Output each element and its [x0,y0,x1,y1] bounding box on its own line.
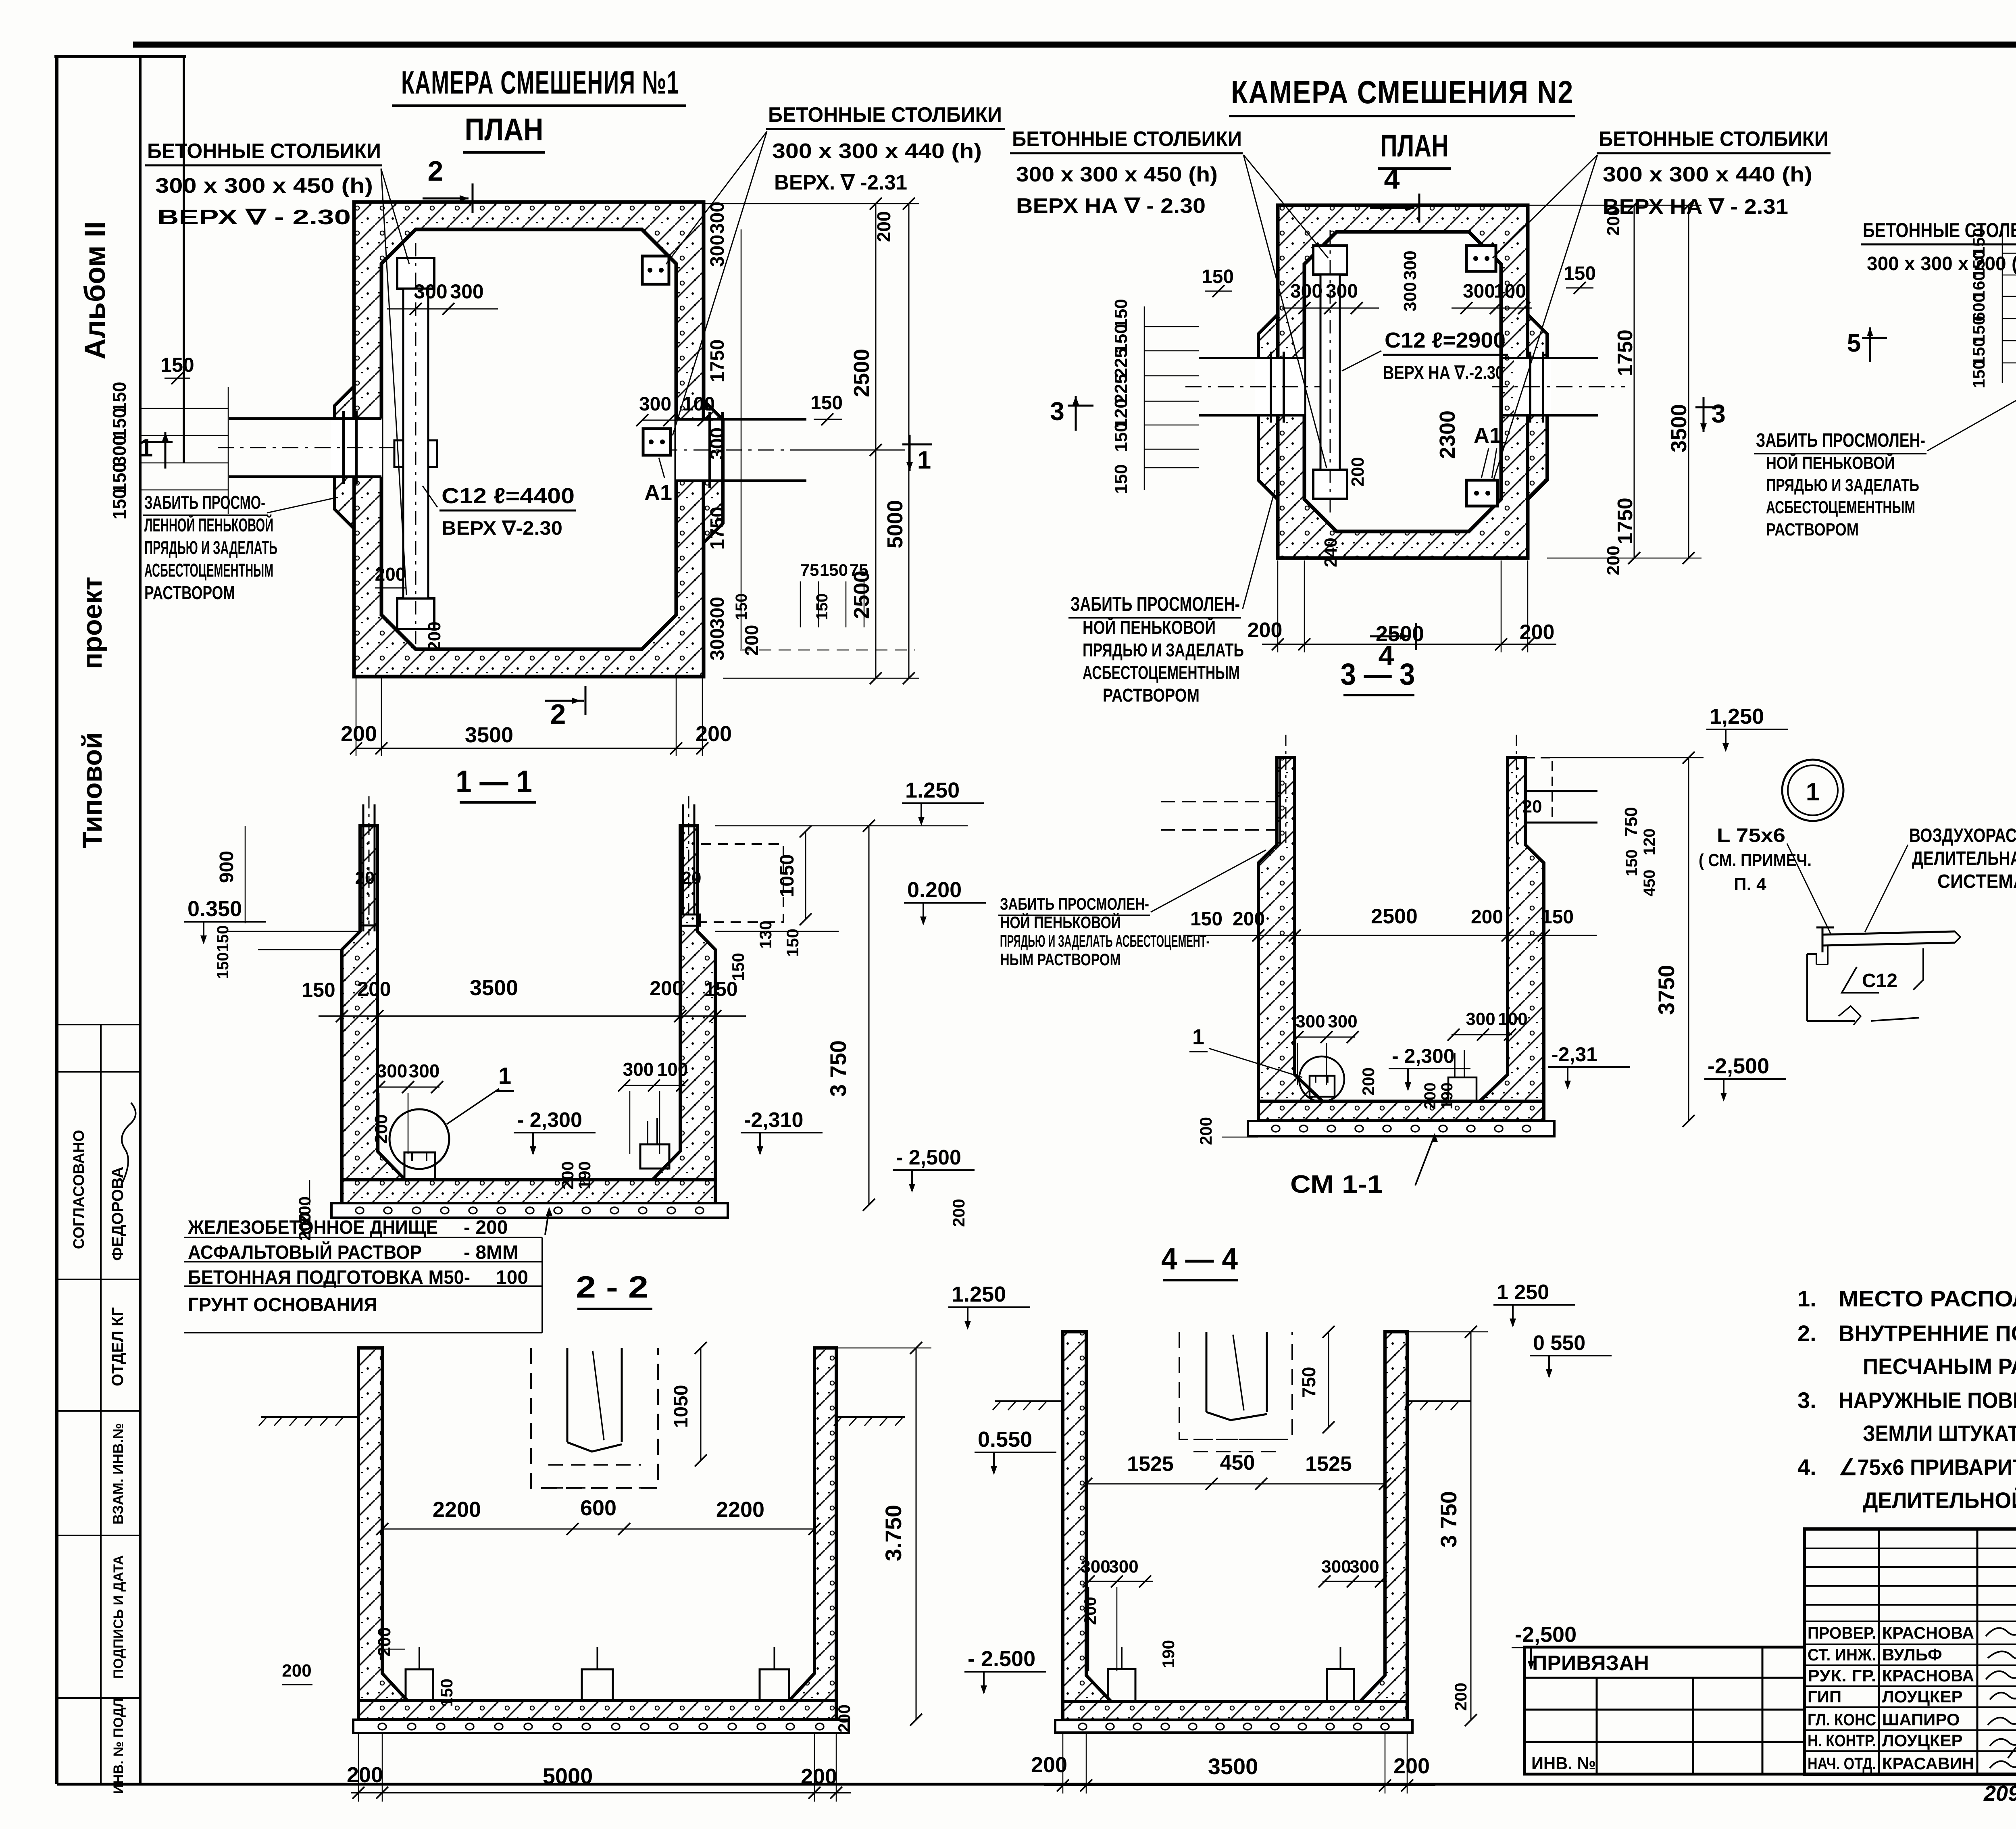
svg-text:ИНВ. № ПОДЛ: ИНВ. № ПОДЛ [111,1698,126,1794]
svg-text:Альбом II: Альбом II [79,221,111,360]
svg-text:200: 200 [1604,206,1623,235]
svg-text:150: 150 [1111,464,1131,494]
svg-text:200: 200 [1471,906,1503,928]
svg-text:200: 200 [347,1763,383,1787]
svg-text:-2,500: -2,500 [1515,1623,1577,1647]
svg-text:РАСТВОРОМ: РАСТВОРОМ [1766,520,1859,540]
svg-text:300: 300 [109,435,130,467]
svg-text:4: 4 [1384,163,1400,195]
svg-text:БЕТОННЫЕ СТОЛБИКИ: БЕТОННЫЕ СТОЛБИКИ [1863,219,2016,242]
svg-text:ОТДЕЛ КГ: ОТДЕЛ КГ [109,1307,127,1386]
svg-text:ГЛ. КОНС: ГЛ. КОНС [1808,1710,1876,1729]
svg-text:150: 150 [783,929,802,957]
svg-text:150: 150 [1202,266,1234,287]
svg-text:ГРУНТ ОСНОВАНИЯ: ГРУНТ ОСНОВАНИЯ [188,1294,377,1316]
svg-text:1 250: 1 250 [1497,1281,1549,1304]
svg-text:300: 300 [1400,250,1420,280]
svg-text:150: 150 [109,489,130,520]
svg-text:ВУЛЬФ: ВУЛЬФ [1882,1645,1942,1664]
svg-text:ДЕЛИТЕЛЬНАЯ: ДЕЛИТЕЛЬНАЯ [1912,848,2016,869]
svg-text:РАСТВОРОМ: РАСТВОРОМ [144,582,235,603]
svg-text:300: 300 [1400,282,1420,311]
svg-text:200: 200 [741,625,762,656]
svg-text:НАЧ. ОТД.: НАЧ. ОТД. [1808,1754,1876,1773]
svg-text:3500: 3500 [1208,1754,1258,1779]
svg-text:ВЕРХ НА ∇ - 2.31: ВЕРХ НА ∇ - 2.31 [1603,195,1788,219]
svg-text:200: 200 [1604,546,1623,575]
svg-text:НОЙ ПЕНЬКОВОЙ: НОЙ ПЕНЬКОВОЙ [1766,452,1895,473]
svg-text:200: 200 [357,978,391,1000]
svg-text:ПРЯДЬЮ И ЗАДЕЛАТЬ: ПРЯДЬЮ И ЗАДЕЛАТЬ [1083,639,1244,660]
svg-text:ВЕРХ НА ∇.-2.30: ВЕРХ НА ∇.-2.30 [1383,362,1504,383]
svg-text:1525: 1525 [1305,1452,1352,1476]
svg-text:НОЙ ПЕНЬКОВОЙ: НОЙ ПЕНЬКОВОЙ [1000,912,1121,932]
svg-text:ВЕРХ. ∇ -2.31: ВЕРХ. ∇ -2.31 [774,171,907,194]
svg-text:4.: 4. [1797,1454,1816,1480]
svg-text:5000: 5000 [543,1763,593,1789]
svg-text:ПРОВЕР.: ПРОВЕР. [1808,1623,1876,1642]
svg-text:150: 150 [109,408,130,439]
svg-text:150: 150 [1541,906,1574,928]
svg-text:150: 150 [160,354,194,376]
svg-text:150: 150 [1564,263,1596,284]
svg-text:ПЛАН: ПЛАН [465,112,544,147]
svg-text:5000: 5000 [883,500,907,548]
svg-text:СТ. ИНЖ.: СТ. ИНЖ. [1808,1645,1876,1664]
svg-text:1050: 1050 [777,854,798,898]
svg-text:3500: 3500 [470,976,518,1000]
svg-text:200: 200 [375,1627,394,1656]
svg-text:200: 200 [873,211,894,242]
svg-text:П. 4: П. 4 [1734,875,1766,894]
svg-text:150: 150 [813,594,831,621]
svg-text:2300: 2300 [1435,410,1460,459]
svg-text:-2,31: -2,31 [1552,1043,1597,1066]
svg-text:ЛОУЦКЕР: ЛОУЦКЕР [1882,1731,1963,1750]
svg-text:КАМЕРА СМЕШЕНИЯ №1: КАМЕРА СМЕШЕНИЯ №1 [401,65,679,100]
svg-text:600: 600 [580,1496,616,1520]
svg-text:200: 200 [1081,1597,1100,1625]
svg-text:ПРЯДЬЮ И ЗАДЕЛАТЬ: ПРЯДЬЮ И ЗАДЕЛАТЬ [144,537,277,558]
svg-text:300: 300 [409,1060,440,1081]
svg-text:РАСТВОРОМ: РАСТВОРОМ [1103,685,1200,706]
svg-text:20934-02: 20934-02 [1983,1781,2016,1806]
svg-text:Типовой: Типовой [77,732,108,848]
svg-text:4 — 4: 4 — 4 [1161,1242,1238,1276]
svg-text:ВНУТРЕННИЕ ПОВЕРХНОСТИ ОШТУ: ВНУТРЕННИЕ ПОВЕРХНОСТИ ОШТУКАТУРИТЬ ЦЕМЕ… [1839,1321,2016,1346]
svg-text:20: 20 [682,868,702,888]
svg-text:1: 1 [1806,778,1820,806]
svg-text:200: 200 [1451,1683,1470,1711]
svg-text:-2,500: -2,500 [1708,1054,1769,1078]
svg-text:1.: 1. [1797,1286,1816,1311]
svg-text:150: 150 [729,953,748,981]
svg-text:ВЕРХ НА ∇ - 2.30: ВЕРХ НА ∇ - 2.30 [1016,194,1206,218]
svg-text:ПРИВЯЗАН: ПРИВЯЗАН [1532,1652,1649,1675]
svg-text:∠75x6 ПРИВАРИТЬ К С12 ПО: ∠75x6 ПРИВАРИТЬ К С12 ПОСЛЕ МОНТАЖА ВОЗД… [1839,1454,2016,1480]
svg-text:1: 1 [917,446,931,474]
svg-text:ЛОУЦКЕР: ЛОУЦКЕР [1882,1687,1963,1706]
svg-text:300 x 300 x 450 (h): 300 x 300 x 450 (h) [155,174,373,198]
svg-text:300 x 300 x 200 (h): 300 x 300 x 200 (h) [1867,253,2016,275]
svg-text:200: 200 [835,1704,854,1733]
svg-text:300: 300 [1109,1557,1138,1577]
svg-text:3 750: 3 750 [1436,1491,1461,1548]
svg-text:АСБЕСТОЦЕМЕНТНЫМ: АСБЕСТОЦЕМЕНТНЫМ [144,560,273,581]
svg-text:300: 300 [623,1059,654,1080]
svg-text:3: 3 [1711,399,1726,428]
svg-text:900: 900 [216,851,237,883]
svg-text:- 8ММ: - 8ММ [464,1242,519,1263]
svg-text:3 — 3: 3 — 3 [1341,657,1415,692]
svg-text:1750: 1750 [1614,498,1637,544]
svg-text:150: 150 [1111,422,1131,452]
svg-text:300: 300 [450,280,483,303]
svg-text:450: 450 [1220,1451,1255,1475]
svg-text:С12 ℓ=4400: С12 ℓ=4400 [442,484,575,508]
svg-text:200: 200 [282,1661,311,1681]
svg-text:300 x 300 x 440 (h): 300 x 300 x 440 (h) [1603,163,1812,186]
svg-text:200: 200 [375,564,406,585]
svg-text:СИСТЕМА: СИСТЕМА [1937,871,2016,892]
svg-text:3500: 3500 [465,723,513,747]
svg-text:750: 750 [1621,807,1641,836]
svg-text:ЗАБИТЬ ПРОСМОЛЕН-: ЗАБИТЬ ПРОСМОЛЕН- [1756,430,1925,451]
svg-text:Н. КОНТР.: Н. КОНТР. [1808,1731,1876,1750]
svg-text:100: 100 [683,394,715,415]
svg-text:300: 300 [639,394,671,415]
svg-text:1: 1 [498,1063,511,1089]
svg-text:ПРЯДЬЮ И ЗАДЕЛАТЬ: ПРЯДЬЮ И ЗАДЕЛАТЬ [1766,475,1919,495]
svg-text:150: 150 [302,979,335,1001]
svg-text:2500: 2500 [850,571,874,619]
svg-text:НЫМ РАСТВОРОМ: НЫМ РАСТВОРОМ [1000,950,1121,969]
svg-text:100: 100 [1494,281,1526,302]
svg-text:300: 300 [707,427,728,460]
svg-text:300: 300 [1290,281,1322,302]
svg-text:1750: 1750 [1614,329,1637,376]
svg-text:3.: 3. [1797,1387,1816,1413]
svg-text:1,250: 1,250 [1710,704,1764,729]
svg-text:200: 200 [1031,1753,1067,1777]
svg-text:2200: 2200 [716,1498,764,1522]
svg-text:300: 300 [1466,1009,1495,1029]
svg-text:0.550: 0.550 [978,1427,1032,1452]
svg-text:БЕТОННЫЕ СТОЛБИКИ: БЕТОННЫЕ СТОЛБИКИ [147,140,381,163]
svg-text:2.: 2. [1797,1321,1816,1346]
svg-text:ЖЕЛЕЗОБЕТОННОЕ ДНИЩЕ: ЖЕЛЕЗОБЕТОННОЕ ДНИЩЕ [187,1217,438,1238]
svg-text:СМ 1-1: СМ 1-1 [1290,1171,1383,1198]
svg-text:200: 200 [650,977,683,1000]
svg-text:БЕТОННАЯ ПОДГОТОВКА М50-: БЕТОННАЯ ПОДГОТОВКА М50- [188,1267,470,1288]
svg-text:450: 450 [1641,870,1658,897]
svg-text:ПЕСЧАНЫМ РАСТВОРОМ СОСТАВ: ПЕСЧАНЫМ РАСТВОРОМ СОСТАВА 1:2 НА ТОЛЩИН… [1863,1354,2016,1379]
svg-text:300: 300 [1350,1557,1379,1577]
svg-text:200: 200 [1520,621,1555,644]
svg-text:300: 300 [414,280,447,303]
svg-text:1: 1 [1192,1025,1204,1049]
svg-text:3500: 3500 [1667,404,1691,452]
svg-text:А1: А1 [644,481,672,505]
svg-text:200: 200 [696,722,732,746]
svg-text:0.200: 0.200 [907,878,962,902]
svg-text:ПЛАН: ПЛАН [1380,128,1449,163]
svg-text:1050: 1050 [671,1385,692,1428]
svg-text:200: 200 [1248,619,1283,642]
svg-text:150: 150 [810,392,843,414]
svg-text:КРАСНОВА: КРАСНОВА [1882,1623,1974,1642]
svg-text:300: 300 [1326,281,1358,302]
svg-text:1.250: 1.250 [905,778,960,802]
svg-text:1: 1 [139,434,153,462]
svg-text:300: 300 [1463,281,1495,302]
svg-text:0 550: 0 550 [1533,1331,1585,1355]
svg-text:75: 75 [800,560,819,579]
svg-text:ЗЕМЛИ ШТУКАТУРЯТСЯ.: ЗЕМЛИ ШТУКАТУРЯТСЯ. [1863,1421,2016,1446]
svg-text:БЕТОННЫЕ СТОЛБИКИ: БЕТОННЫЕ СТОЛБИКИ [1599,127,1829,151]
svg-text:3: 3 [1050,397,1064,426]
svg-text:1 — 1: 1 — 1 [456,764,532,799]
svg-text:200: 200 [425,621,444,651]
svg-text:150: 150 [1623,850,1641,877]
svg-text:20: 20 [355,868,375,888]
svg-text:300 x 300 x 440 (h): 300 x 300 x 440 (h) [772,140,982,163]
svg-text:150: 150 [214,925,232,952]
svg-text:150: 150 [214,952,232,979]
svg-text:КАМЕРА СМЕШЕНИЯ N2: КАМЕРА СМЕШЕНИЯ N2 [1231,74,1574,110]
svg-text:ДЕЛИТЕЛЬНОЙ СИСТЕМЫ ( ПО: ДЕЛИТЕЛЬНОЙ СИСТЕМЫ ( ПО ЧЕРТЕЖАМ МАРКИ … [1863,1487,2016,1513]
svg-text:С12 ℓ=2900: С12 ℓ=2900 [1385,328,1506,352]
svg-text:ВЕРХ ∇-2.30: ВЕРХ ∇-2.30 [442,518,562,539]
svg-text:300: 300 [377,1060,408,1081]
svg-text:- 2,300: - 2,300 [517,1108,582,1132]
svg-text:150: 150 [820,560,848,579]
svg-text:ВЕРХ ∇ - 2.30: ВЕРХ ∇ - 2.30 [157,206,351,229]
svg-text:НОЙ ПЕНЬКОВОЙ: НОЙ ПЕНЬКОВОЙ [1083,617,1216,638]
svg-text:ПРЯДЬЮ И ЗАДЕЛАТЬ АСБЕСТОЦЕМЕН: ПРЯДЬЮ И ЗАДЕЛАТЬ АСБЕСТОЦЕМЕНТ- [1000,931,1210,950]
svg-text:АСБЕСТОЦЕМЕНТНЫМ: АСБЕСТОЦЕМЕНТНЫМ [1766,498,1915,517]
svg-text:100: 100 [1498,1009,1527,1029]
svg-text:- 2.500: - 2.500 [968,1647,1035,1671]
svg-text:ПОДПИСЬ И ДАТА: ПОДПИСЬ И ДАТА [111,1555,126,1679]
svg-text:1750: 1750 [707,507,728,550]
svg-text:200: 200 [949,1199,968,1227]
svg-text:150: 150 [733,594,750,621]
svg-text:ШАПИРО: ШАПИРО [1882,1710,1960,1729]
svg-text:- 2,300: - 2,300 [1392,1045,1455,1067]
svg-text:С12: С12 [1862,970,1897,992]
svg-text:240: 240 [1321,537,1341,567]
svg-text:150: 150 [437,1679,456,1707]
svg-text:3 750: 3 750 [825,1040,851,1097]
svg-text:3.750: 3.750 [881,1505,906,1561]
svg-text:ЛЕННОЙ ПЕНЬКОВОЙ: ЛЕННОЙ ПЕНЬКОВОЙ [144,515,273,535]
svg-text:РУК. ГР.: РУК. ГР. [1808,1666,1876,1685]
svg-text:120: 120 [1641,829,1658,856]
svg-text:ЗАБИТЬ ПРОСМО-: ЗАБИТЬ ПРОСМО- [144,492,265,513]
svg-text:100: 100 [496,1267,528,1288]
svg-text:L 75x6: L 75x6 [1717,825,1785,846]
svg-text:100: 100 [657,1059,688,1080]
svg-text:1525: 1525 [1127,1452,1174,1476]
svg-text:20: 20 [1522,797,1542,817]
svg-text:200: 200 [1233,908,1265,930]
svg-text:2500: 2500 [1371,905,1418,928]
svg-text:КРАСАВИН: КРАСАВИН [1882,1754,1974,1773]
svg-text:300: 300 [707,628,728,660]
svg-text:300: 300 [1295,1012,1325,1031]
svg-text:- 200: - 200 [464,1217,508,1238]
svg-text:130: 130 [756,921,775,949]
svg-text:ГИП: ГИП [1808,1687,1841,1706]
svg-text:200: 200 [1421,1083,1439,1110]
svg-text:750: 750 [1298,1367,1319,1398]
svg-text:2: 2 [428,155,444,187]
svg-text:190: 190 [1438,1083,1456,1110]
svg-text:ЗАБИТЬ ПРОСМОЛЕН-: ЗАБИТЬ ПРОСМОЛЕН- [1000,894,1149,913]
svg-text:300 x 300 x 450 (h): 300 x 300 x 450 (h) [1016,163,1218,186]
svg-text:200: 200 [371,1114,391,1144]
svg-text:200: 200 [1393,1754,1430,1778]
svg-text:300: 300 [1321,1557,1351,1577]
svg-text:150: 150 [1969,360,1988,388]
svg-text:190: 190 [1159,1640,1178,1668]
svg-text:А1: А1 [1474,423,1502,448]
svg-text:АСБЕСТОЦЕМЕНТНЫМ: АСБЕСТОЦЕМЕНТНЫМ [1083,662,1240,683]
svg-text:200: 200 [1196,1117,1215,1145]
svg-text:2200: 2200 [433,1498,481,1522]
svg-text:300: 300 [1328,1012,1357,1031]
svg-text:проект: проект [77,577,108,669]
svg-text:ИНВ. №: ИНВ. № [1531,1754,1596,1773]
svg-text:150: 150 [1190,908,1223,930]
svg-text:200: 200 [558,1161,577,1189]
svg-text:300: 300 [707,597,728,629]
svg-text:3750: 3750 [1654,965,1679,1015]
svg-text:2: 2 [550,698,566,730]
svg-text:МЕСТО РАСПОЛОЖЕНИЕ КАМЕР С: МЕСТО РАСПОЛОЖЕНИЕ КАМЕР СМ. НА ЛИСТЕ [1839,1286,2016,1311]
svg-text:300: 300 [1081,1557,1110,1577]
svg-text:ВЗАМ. ИНВ.№: ВЗАМ. ИНВ.№ [110,1423,126,1525]
svg-text:АСФАЛЬТОВЫЙ РАСТВОР: АСФАЛЬТОВЫЙ РАСТВОР [188,1241,422,1263]
svg-text:БЕТОННЫЕ СТОЛБИКИ: БЕТОННЫЕ СТОЛБИКИ [1012,127,1242,151]
svg-text:1750: 1750 [707,340,728,383]
svg-text:2 - 2: 2 - 2 [576,1270,648,1304]
svg-text:БЕТОННЫЕ СТОЛБИКИ: БЕТОННЫЕ СТОЛБИКИ [768,103,1002,127]
svg-text:КРАСНОВА: КРАСНОВА [1882,1666,1974,1685]
svg-text:200: 200 [1348,457,1368,486]
svg-text:ВОЗДУХОРАСПРЕ-: ВОЗДУХОРАСПРЕ- [1909,825,2016,846]
svg-text:НАРУЖНЫЕ ПОВЕРХНОСТИ ВЫШЕ: НАРУЖНЫЕ ПОВЕРХНОСТИ ВЫШЕ ПЛАНИРОВОЧНЫХ … [1839,1387,2016,1413]
svg-text:5: 5 [1847,329,1861,357]
svg-text:0.350: 0.350 [187,897,242,921]
svg-text:ЗАБИТЬ ПРОСМОЛЕН-: ЗАБИТЬ ПРОСМОЛЕН- [1070,593,1240,615]
svg-text:2500: 2500 [850,349,874,397]
svg-text:200: 200 [341,722,377,746]
svg-text:200: 200 [1359,1067,1378,1096]
svg-text:СОГЛАСОВАНО: СОГЛАСОВАНО [71,1130,87,1249]
svg-text:200: 200 [801,1764,837,1789]
svg-text:225: 225 [1111,348,1131,377]
svg-text:-2,310: -2,310 [744,1108,803,1132]
svg-text:1.250: 1.250 [952,1282,1006,1306]
svg-text:- 2,500: - 2,500 [896,1146,961,1169]
svg-text:190: 190 [575,1161,594,1189]
svg-text:300: 300 [707,202,728,234]
svg-text:300: 300 [707,235,728,267]
